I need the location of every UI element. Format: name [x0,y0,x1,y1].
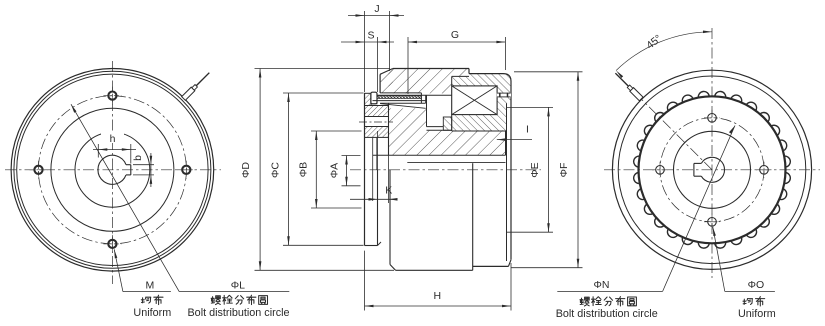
middle view: half section [240,3,583,311]
svg-text:ΦO: ΦO [748,279,765,291]
grease fitting left view [182,71,211,100]
sleeve top band [452,74,511,86]
scallop base circle [639,96,786,243]
wheel lip hatch [380,69,393,93]
dim J [364,11,366,92]
svg-text:ΦL: ΦL [231,279,245,291]
wheel outline [380,69,393,75]
svg-text:Bolt distribution circle: Bolt distribution circle [556,308,658,320]
wheel left face [388,103,390,155]
sleeve tooth block [443,117,451,130]
scallop bumps [634,91,791,248]
brake wheel rim circle 3 [17,74,208,265]
bolt holes right view [708,114,717,123]
dim G [407,37,409,94]
flange block B3 [365,127,389,138]
leader PhiL [71,104,77,113]
left view: brake wheel front [5,61,290,319]
svg-text:Uniform: Uniform [738,308,776,320]
dim PhiE [507,106,554,108]
bore with keyway left [701,157,724,182]
sleeve bottom band [452,115,507,131]
leader PhiN [729,126,735,134]
sleeve outline top [469,74,511,260]
svg-text:ΦN: ΦN [594,279,610,291]
svg-text:ΦC: ΦC [270,162,282,178]
wheel hub hatch [427,130,506,155]
white gap for h label [101,131,124,143]
svg-text:ΦF: ΦF [558,163,570,178]
slot left face [426,95,428,126]
45deg centerline [631,89,712,170]
dim S [377,37,379,92]
brake wheel outer circle [11,69,214,272]
leader PhiO [713,227,716,236]
svg-text:ΦB: ΦB [298,162,310,177]
centerline horizontal [5,169,221,171]
dimension b [133,164,154,166]
flange left face [364,93,366,245]
svg-text:ΦA: ΦA [329,163,341,178]
bottom exterior: wheel [389,170,391,265]
svg-text:h: h [110,133,116,145]
svg-text:H: H [434,290,442,302]
dim PhiF [514,71,583,73]
hub right face [505,131,507,155]
mesh lines [427,126,444,128]
outer circle [612,70,811,269]
pin elastic [372,96,421,99]
sleeve right column [497,86,511,103]
dim PhiC [283,92,364,94]
K ext lines [377,131,379,203]
dim PhiB [311,130,362,132]
svg-text:ΦD: ΦD [240,162,252,178]
text junbu uniform [141,297,151,303]
svg-text:b: b [132,155,144,161]
wheel web hatch [389,108,427,155]
svg-text:K: K [385,185,392,197]
svg-text:G: G [451,29,459,41]
hub circle phiB [75,132,150,207]
second circle [618,76,806,264]
45deg arc dimension [616,32,712,71]
flange block B2 [365,106,389,117]
flange block B1 [365,93,372,105]
grease fitting right view [614,71,643,100]
centerline horizontal [604,169,820,171]
svg-text:ΦE: ΦE [529,162,541,177]
hub nose face [372,138,374,201]
svg-text:I: I [526,124,529,136]
brake wheel rim circle 2 [14,71,211,268]
centerline vertical [111,61,113,284]
dim K [350,198,395,200]
flange right face [377,170,379,246]
bolt hole top [108,92,116,100]
bolt circle dash-dot [38,96,186,244]
centerline [350,169,541,171]
dimension h [97,144,99,158]
svg-text:M: M [146,279,155,291]
leader M [114,249,117,258]
centerline vertical [711,28,713,278]
pin head [371,92,377,104]
elastic element box [452,86,497,115]
wheel rim hatch [389,69,452,94]
dim PhiA [342,155,361,157]
cone line [380,104,426,109]
dim H [364,251,366,311]
snap ring groove [497,93,511,98]
flange circle [51,108,174,231]
flange spigot centerline dash-dot [359,121,393,123]
pin end lines [420,93,422,103]
right view: gear sleeve end [556,28,820,320]
dim PhiD [255,68,391,70]
sleeve inner face [506,103,508,261]
flange bottom edge [365,245,378,247]
dim I [497,139,532,141]
text bolt distribution circle cn [211,296,220,305]
bore lines [373,154,506,156]
wheel rim right part hatch [452,69,469,77]
bolt circle dash-dot [660,118,764,222]
inner circle [674,131,751,208]
svg-text:Bolt distribution circle: Bolt distribution circle [187,307,289,319]
svg-text:S: S [367,30,374,42]
svg-text:Uniform: Uniform [133,307,171,319]
slot top line [373,94,452,96]
bore with keyway [98,155,126,184]
svg-text:J: J [374,3,379,15]
